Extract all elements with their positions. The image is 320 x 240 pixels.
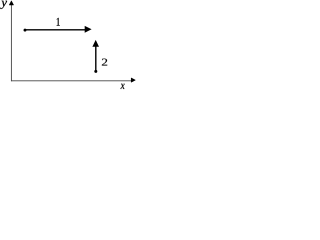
vector 1 shaft (wire) (25, 29, 86, 31)
vector 2 arrowhead (92, 40, 99, 47)
vector 1 arrowhead (85, 26, 92, 33)
label 2 (102, 59, 107, 66)
vector 2 shaft (wire) (95, 46, 97, 72)
label y (0, 1, 7, 9)
label x (121, 84, 125, 89)
x-axis (11, 80, 132, 82)
vector 1 dot (24, 29, 27, 32)
label 1 (57, 18, 60, 26)
x-axis arrowhead (131, 78, 135, 82)
y-axis arrowhead (9, 1, 13, 5)
y-axis (10, 4, 12, 82)
vector 2 dot (94, 70, 97, 73)
